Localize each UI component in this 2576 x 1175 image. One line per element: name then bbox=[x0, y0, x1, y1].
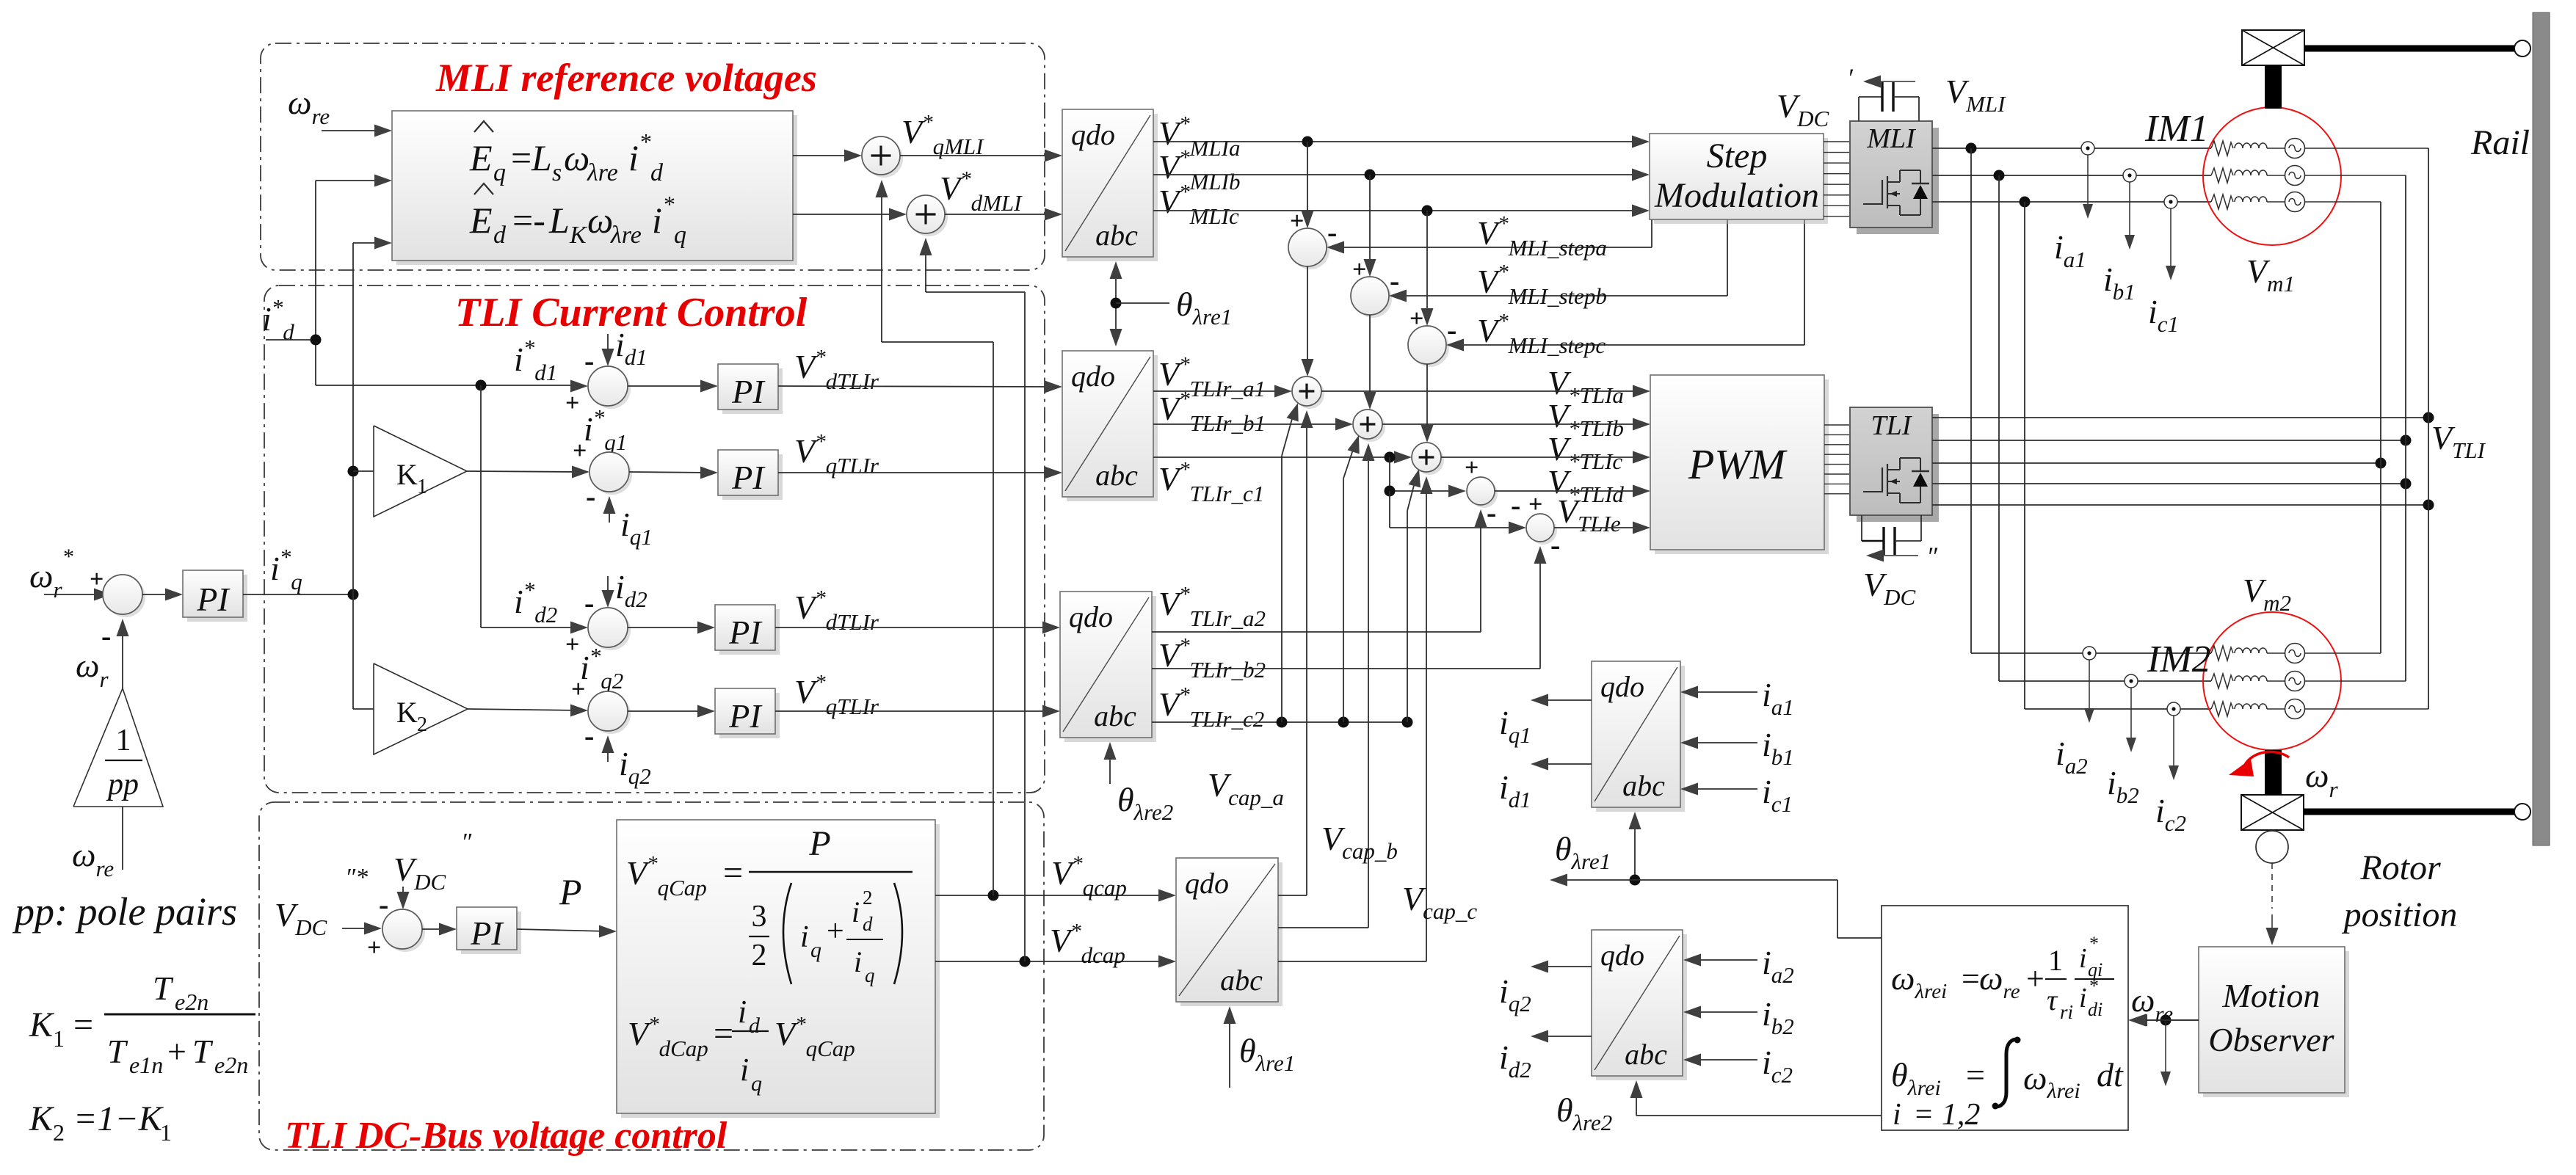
svg-text:PI: PI bbox=[728, 614, 763, 651]
svg-text:V*qcap: V*qcap bbox=[1051, 852, 1127, 901]
svg-text:qdo: qdo bbox=[1185, 867, 1229, 900]
svg-text:qdo: qdo bbox=[1600, 939, 1644, 972]
label omega_r feedback bbox=[76, 647, 109, 692]
arrow i_a1 bbox=[2083, 155, 2093, 219]
node TLI line5 to bus bbox=[2423, 500, 2434, 511]
label V_DC" feedback bbox=[393, 829, 472, 895]
svg-text:V*MLI_stepc: V*MLI_stepc bbox=[1477, 310, 1606, 358]
svg-text:position: position bbox=[2342, 895, 2458, 934]
capacitor VDC prime bbox=[1859, 82, 1919, 121]
wires gate signals MLI bbox=[1824, 142, 1849, 217]
svg-text:θλre1: θλre1 bbox=[1176, 285, 1232, 330]
equation Ed text bbox=[469, 183, 686, 249]
svg-text:L: L bbox=[548, 200, 570, 241]
wire V*TLIr_b1 bbox=[1153, 418, 1353, 431]
shaft IM2 bbox=[2265, 750, 2282, 795]
svg-text:id2: id2 bbox=[1499, 1038, 1531, 1083]
svg-text:′: ′ bbox=[1847, 63, 1854, 92]
label V_DC"* ref bbox=[275, 864, 368, 940]
svg-text:i*q2: i*q2 bbox=[580, 643, 623, 694]
label i_c2 in bbox=[1762, 1044, 1793, 1088]
wire i_d1 down arrow bbox=[584, 334, 614, 377]
svg-text:ωr: ωr bbox=[76, 647, 109, 692]
node MLIc tap bbox=[1422, 205, 1433, 217]
svg-text:P: P bbox=[559, 871, 582, 912]
label i_c1 bbox=[2148, 293, 2179, 337]
label V_TLIe bbox=[1557, 492, 1621, 536]
svg-text:Vcap_a: Vcap_a bbox=[1208, 766, 1284, 810]
label V*_dMLI bbox=[940, 167, 1023, 216]
wire stepc feedback bbox=[1446, 219, 1804, 352]
label i_b1 in bbox=[1762, 726, 1794, 770]
svg-text:di: di bbox=[2088, 999, 2102, 1020]
svg-text:ωr: ωr bbox=[2305, 757, 2338, 802]
svg-text:d: d bbox=[863, 913, 873, 935]
wire omega_re into flux model bbox=[2128, 1014, 2199, 1027]
wire V*TLIr_c1 bbox=[1153, 451, 1412, 464]
svg-text:i: i bbox=[2079, 983, 2087, 1014]
svg-text:d: d bbox=[749, 1014, 761, 1038]
svg-text:+: + bbox=[565, 631, 579, 658]
svg-text:i: i bbox=[740, 1052, 749, 1088]
label V*_dTLIr 1 bbox=[794, 346, 879, 394]
wire omega_re to eq block bbox=[322, 125, 392, 137]
svg-text:=: = bbox=[73, 1005, 93, 1044]
svg-text:-: - bbox=[584, 719, 594, 752]
svg-text:i: i bbox=[2079, 943, 2087, 974]
label V*_TLIr_a1 bbox=[1158, 353, 1266, 401]
label i_d1 bbox=[615, 326, 647, 370]
svg-text:ib2: ib2 bbox=[1762, 995, 1794, 1039]
wire V*TLIa out bbox=[1321, 385, 1650, 398]
wire P to cap block bbox=[517, 925, 617, 938]
node c2 tap a bbox=[1277, 717, 1288, 728]
summing junction stepb bbox=[1351, 256, 1399, 318]
svg-text:ic2: ic2 bbox=[1762, 1044, 1793, 1088]
summing junction dMLI bbox=[907, 195, 948, 236]
transform block qdo3 bbox=[1060, 592, 1156, 742]
wire TLI line4 bbox=[1932, 483, 2406, 484]
svg-text:*: * bbox=[2089, 933, 2099, 954]
wires gate signals TLI bbox=[1824, 425, 1849, 494]
label i*_q2 bbox=[580, 643, 623, 694]
wire theta_re1 double arrow bbox=[1110, 261, 1122, 346]
title TLI Current Control bbox=[455, 290, 808, 335]
wire TLI line2 bbox=[1932, 440, 2406, 441]
summing junction VDC bbox=[382, 909, 425, 952]
svg-text:PI: PI bbox=[731, 459, 766, 496]
node c1 branch bbox=[1385, 452, 1396, 463]
node c1 branch2 bbox=[1385, 486, 1396, 497]
wire MLI phase c bbox=[1932, 201, 2211, 203]
label V_cap_b bbox=[1321, 820, 1398, 864]
motor IM1 stator circle bbox=[2203, 107, 2341, 245]
wire i_q2 up arrow bbox=[584, 719, 614, 762]
sensor i_c2 tap bbox=[2167, 702, 2180, 716]
label V*_TLIr_b1 bbox=[1158, 388, 1266, 436]
wire c1 to TLId bbox=[1390, 457, 1466, 498]
svg-text:V*qMLI: V*qMLI bbox=[901, 111, 984, 159]
svg-text:TLI Current Control: TLI Current Control bbox=[455, 290, 808, 335]
label omega_r* bbox=[29, 545, 73, 603]
label i_a2 bbox=[2056, 735, 2088, 779]
svg-text:d: d bbox=[650, 159, 664, 186]
svg-text:abc: abc bbox=[1095, 219, 1138, 252]
wire bus phase C bbox=[2380, 202, 2381, 653]
svg-text:2: 2 bbox=[752, 939, 767, 972]
svg-text:id2: id2 bbox=[615, 568, 647, 612]
title MLI reference voltages bbox=[435, 56, 817, 100]
svg-text:-: - bbox=[1327, 216, 1337, 249]
wire i_d1 out bbox=[1531, 758, 1592, 771]
svg-text:Motion: Motion bbox=[2222, 977, 2321, 1014]
svg-text:Observer: Observer bbox=[2208, 1021, 2334, 1058]
label V*_MLIb bbox=[1158, 146, 1241, 194]
summing junction speed bbox=[103, 575, 145, 617]
svg-text:-: - bbox=[1511, 489, 1520, 522]
svg-text:i: i bbox=[652, 200, 662, 241]
svg-text:-: - bbox=[584, 344, 594, 377]
dashed group box: TLI DC-Bus voltage control bbox=[259, 802, 1044, 1150]
block PWM bbox=[1650, 375, 1829, 554]
svg-text:T: T bbox=[107, 1033, 128, 1070]
svg-text:=: = bbox=[714, 1014, 733, 1053]
summing junction TLIe bbox=[1511, 489, 1560, 561]
wire d2 to PI bbox=[628, 622, 715, 634]
wire i_d2 down arrow bbox=[584, 576, 614, 619]
svg-text:i: i bbox=[628, 137, 639, 178]
wire V*TLIr_b2 bbox=[1152, 546, 1547, 669]
svg-text:PI: PI bbox=[731, 373, 766, 410]
svg-text:PI: PI bbox=[728, 697, 763, 735]
svg-text:V*dMLI: V*dMLI bbox=[940, 167, 1023, 216]
PI block d1 bbox=[718, 364, 783, 414]
wire MLI phase b bbox=[1932, 175, 2211, 176]
wire i_q2 out bbox=[1531, 961, 1592, 973]
node MLIb tap bbox=[1365, 170, 1376, 181]
equation K1 bbox=[29, 970, 255, 1078]
svg-text:+: + bbox=[565, 390, 579, 417]
summing junction TLIc bbox=[1412, 443, 1444, 475]
PI block d2 bbox=[715, 605, 780, 655]
node c2 tap c bbox=[1402, 717, 1413, 728]
svg-text:i*d1: i*d1 bbox=[514, 335, 557, 385]
label i_q1 bbox=[620, 506, 653, 550]
svg-text:iq1: iq1 bbox=[1499, 704, 1531, 748]
svg-text:″*: ″* bbox=[345, 864, 368, 891]
svg-text:TLI DC-Bus voltage control: TLI DC-Bus voltage control bbox=[285, 1115, 728, 1157]
wire MLIc down bbox=[1421, 211, 1434, 326]
svg-text:ib2: ib2 bbox=[2107, 764, 2139, 808]
svg-text:+: + bbox=[827, 914, 844, 948]
label V*_qTLIr 1 bbox=[794, 430, 879, 479]
node TLI line3 to bus bbox=[2376, 458, 2387, 469]
block MLI inverter bbox=[1850, 121, 1939, 234]
svg-text:L: L bbox=[531, 137, 552, 178]
svg-text:V*TLIr_a2: V*TLIr_a2 bbox=[1158, 583, 1266, 631]
block Motion Observer bbox=[2199, 947, 2349, 1097]
wire V*MLIb bbox=[1153, 169, 1650, 181]
label i*_d1 bbox=[514, 335, 557, 385]
svg-text:″: ″ bbox=[461, 829, 472, 856]
wire omega_r feedback bbox=[117, 619, 129, 688]
svg-text:V*MLI_stepb: V*MLI_stepb bbox=[1477, 261, 1607, 309]
svg-text:VDC: VDC bbox=[393, 851, 446, 895]
wire V*MLIa bbox=[1153, 136, 1650, 148]
wire MLI c to IM2 bbox=[2025, 202, 2211, 709]
label i_q2 out bbox=[1499, 972, 1531, 1016]
label V_m1 bbox=[2246, 252, 2295, 297]
node K1 tap bbox=[348, 466, 359, 477]
svg-text:K: K bbox=[29, 1099, 55, 1138]
label omega_r shaft bbox=[2305, 757, 2338, 802]
svg-text:ωre: ωre bbox=[288, 84, 330, 129]
wire Ed sum to qdo1 bbox=[945, 208, 1062, 221]
label omega_re bottom-left bbox=[72, 836, 114, 881]
wire TLI line5 bbox=[1932, 504, 2428, 506]
svg-text:-: - bbox=[101, 619, 111, 652]
gearbox IM1 bbox=[2242, 30, 2304, 65]
svg-text:Step: Step bbox=[1707, 137, 1768, 175]
label V*_dcap bbox=[1050, 920, 1125, 968]
label theta_lre2 low bbox=[1556, 1091, 1612, 1135]
sensor i_a2 tap bbox=[2083, 647, 2096, 660]
summing junction stepc bbox=[1408, 305, 1456, 367]
wire speed error to PI bbox=[142, 589, 183, 601]
gain block 1/pp bbox=[73, 688, 163, 807]
svg-text:1: 1 bbox=[417, 476, 427, 498]
label Rail bbox=[2470, 123, 2530, 162]
wire i_c1 in bbox=[1680, 783, 1757, 796]
label Rotor position bbox=[2342, 848, 2458, 934]
wire stepb out bbox=[1364, 315, 1376, 410]
rail bar bbox=[2533, 12, 2550, 845]
arrow i_a2 bbox=[2084, 660, 2094, 723]
svg-text:θλre1: θλre1 bbox=[1239, 1032, 1295, 1076]
svg-text:iq1: iq1 bbox=[620, 506, 653, 550]
wire i*_d1 line bbox=[316, 380, 588, 418]
label i_a1 in bbox=[1762, 676, 1794, 720]
node c2 tap b bbox=[1338, 717, 1349, 728]
svg-text:PWM: PWM bbox=[1688, 440, 1788, 488]
label theta_lre1 top bbox=[1176, 285, 1232, 330]
svg-text:ia2: ia2 bbox=[1762, 944, 1794, 988]
arrow i_b1 bbox=[2125, 182, 2135, 250]
wire stepa feedback bbox=[1327, 219, 1652, 254]
svg-text:abc: abc bbox=[1095, 459, 1138, 492]
svg-text:″: ″ bbox=[1926, 542, 1938, 571]
svg-text:q: q bbox=[493, 159, 506, 186]
wire i_b2 in bbox=[1683, 1006, 1757, 1019]
wire VDC ref in bbox=[342, 923, 382, 962]
node theta_re1 tap bbox=[1111, 298, 1122, 309]
svg-text:+: + bbox=[167, 1033, 186, 1070]
label V*_MLIa bbox=[1158, 112, 1241, 161]
label V_TLI bbox=[2431, 419, 2486, 463]
svg-text:ω: ω bbox=[587, 200, 613, 241]
arrow VDC prime measure bbox=[1863, 76, 1915, 88]
label i*_q bbox=[270, 544, 302, 594]
svg-text:ic2: ic2 bbox=[2155, 792, 2186, 836]
motor IM2 winding c bbox=[2211, 699, 2428, 719]
label V*_TLIb bbox=[1548, 397, 1624, 441]
svg-text:T: T bbox=[153, 970, 174, 1007]
label i*_q1 bbox=[584, 404, 627, 455]
label V*_TLIr_b2 bbox=[1158, 634, 1266, 683]
wire bus phase A bbox=[2428, 148, 2429, 709]
svg-text:E: E bbox=[469, 137, 493, 178]
encoder circle bbox=[2256, 831, 2288, 863]
svg-text:pp: pole pairs: pp: pole pairs bbox=[12, 890, 237, 934]
sensor i_b1 tap bbox=[2123, 169, 2136, 182]
node MLIa tap bbox=[1302, 137, 1313, 148]
svg-text:V*TLIr_b2: V*TLIr_b2 bbox=[1158, 634, 1266, 683]
svg-text:e2n: e2n bbox=[214, 1052, 248, 1078]
label V*_TLIa bbox=[1548, 364, 1624, 408]
svg-text:1: 1 bbox=[160, 1119, 172, 1146]
node MLI a branch bbox=[1966, 143, 1977, 154]
svg-text:λre: λre bbox=[587, 159, 618, 186]
svg-text:V*qTLIr: V*qTLIr bbox=[794, 671, 879, 719]
label i_d2 bbox=[615, 568, 647, 612]
summing junction qMLI bbox=[862, 137, 903, 178]
transform block qdo i1 bbox=[1592, 661, 1685, 812]
label IM2 bbox=[2147, 639, 2211, 680]
wire theta_re1 into qdo cap bbox=[1224, 1006, 1236, 1088]
svg-text:pp: pp bbox=[106, 768, 139, 801]
wire q1 to PI bbox=[629, 467, 718, 479]
svg-text:Rotor: Rotor bbox=[2359, 848, 2441, 887]
svg-text:=: = bbox=[1966, 1056, 1985, 1094]
wire Vcap_a out bbox=[1278, 410, 1313, 895]
wire omega_re from observer bbox=[2130, 1014, 2199, 1027]
wire i_c2 in bbox=[1683, 1054, 1757, 1066]
motor IM2 winding a bbox=[2211, 644, 2381, 663]
label i_b2 in bbox=[1762, 995, 1794, 1039]
transform block qdo1 bbox=[1062, 109, 1158, 261]
wire Eq sum to qdo1 bbox=[900, 150, 1062, 162]
PI block q1 bbox=[718, 450, 783, 500]
wire V*dcap out bbox=[935, 956, 1176, 968]
svg-text:=-: =- bbox=[512, 200, 545, 241]
equation VdCap line2 bbox=[628, 994, 855, 1096]
sensor i_c1 tap bbox=[2164, 195, 2177, 208]
svg-text:3: 3 bbox=[752, 900, 767, 934]
label V*_qMLI bbox=[901, 111, 984, 159]
svg-text:q: q bbox=[865, 964, 875, 986]
svg-text:ωre: ωre bbox=[72, 836, 114, 881]
wire V*_dTLIr 2 bbox=[775, 622, 1060, 634]
svg-text:-: - bbox=[1447, 313, 1456, 346]
sensor i_b2 tap bbox=[2125, 674, 2138, 688]
svg-text:*: * bbox=[664, 191, 675, 217]
svg-text:+: + bbox=[1465, 454, 1479, 481]
wire stepa out bbox=[1302, 266, 1314, 376]
gain block K2 bbox=[374, 663, 468, 754]
wire V*qcap up to qMLI sum bbox=[876, 180, 994, 895]
label omega_re top bbox=[288, 84, 330, 129]
svg-text:V*MLI_stepa: V*MLI_stepa bbox=[1477, 212, 1607, 261]
wire i_b1 in bbox=[1680, 737, 1757, 749]
label theta_lre1 cap bbox=[1239, 1032, 1295, 1076]
svg-text:ia2: ia2 bbox=[2056, 735, 2088, 779]
svg-text:i: i bbox=[854, 945, 862, 978]
equation VqCap line1 bbox=[626, 824, 913, 986]
svg-text:*: * bbox=[640, 128, 652, 155]
label i_b1 bbox=[2103, 261, 2136, 305]
svg-text:VDC: VDC bbox=[1777, 87, 1829, 131]
svg-text:abc: abc bbox=[1622, 769, 1665, 802]
svg-text:qdo: qdo bbox=[1071, 360, 1115, 393]
svg-text:=: = bbox=[511, 137, 531, 178]
wire Eq out bbox=[793, 150, 862, 162]
label i_q1 out bbox=[1499, 704, 1531, 748]
label i_c1 in bbox=[1762, 773, 1793, 817]
svg-text:V*qTLIr: V*qTLIr bbox=[794, 430, 879, 479]
svg-text:K: K bbox=[569, 222, 588, 249]
equation block Eq Ed bbox=[392, 111, 797, 265]
label i_b2 bbox=[2107, 764, 2139, 808]
svg-text:PI: PI bbox=[470, 914, 504, 952]
wire to K2 bbox=[353, 708, 374, 710]
wire bus phase B bbox=[2405, 175, 2406, 681]
svg-text:-: - bbox=[1550, 528, 1560, 561]
summing junction q2 bbox=[588, 691, 631, 734]
svg-text:i*d2: i*d2 bbox=[514, 577, 557, 627]
label V*_dTLIr 2 bbox=[794, 586, 879, 635]
wire Ed out bbox=[793, 208, 907, 221]
motor IM2 stator circle bbox=[2203, 612, 2341, 750]
equation block VqCap bbox=[617, 820, 940, 1118]
svg-text:abc: abc bbox=[1220, 964, 1263, 997]
transform block qdo i2 bbox=[1592, 930, 1687, 1080]
axle IM1 to rail bbox=[2304, 46, 2516, 52]
wheel IM2 bbox=[2514, 804, 2530, 820]
axle IM2 to rail bbox=[2304, 809, 2516, 815]
wire VDC err to PI bbox=[422, 923, 457, 936]
wire stepb feedback bbox=[1389, 219, 1727, 302]
arrow omega_re down bbox=[2160, 1020, 2171, 1086]
svg-text:VDC: VDC bbox=[275, 896, 327, 940]
svg-text:ia1: ia1 bbox=[1762, 676, 1794, 720]
wire i_q1 out bbox=[1531, 694, 1592, 707]
svg-text:ri: ri bbox=[2060, 1001, 2073, 1023]
node MLI c branch bbox=[2020, 197, 2031, 208]
wire VDC feedback down bbox=[379, 887, 410, 921]
wire TLI line3 bbox=[1932, 462, 2381, 464]
equation Eq text bbox=[469, 121, 664, 186]
wire V TLIe out bbox=[1554, 522, 1650, 534]
svg-text:+: + bbox=[2026, 961, 2045, 997]
equation block flux model bbox=[1882, 906, 2128, 1130]
svg-text:i: i bbox=[852, 895, 860, 928]
svg-text:+: + bbox=[1528, 491, 1542, 518]
equation K2 bbox=[29, 1099, 172, 1146]
summing junction d1 bbox=[588, 366, 631, 409]
svg-text:VDC: VDC bbox=[1863, 566, 1915, 610]
svg-text:=1−K: =1−K bbox=[73, 1099, 164, 1138]
svg-text:Rail: Rail bbox=[2470, 123, 2530, 162]
node i*_d bbox=[311, 335, 322, 346]
label V_m2 bbox=[2243, 572, 2291, 616]
label V*_TLId bbox=[1548, 463, 1624, 507]
svg-text:Modulation: Modulation bbox=[1654, 176, 1819, 215]
svg-text:-: - bbox=[586, 480, 595, 513]
svg-text:id1: id1 bbox=[1499, 768, 1531, 812]
svg-text:e1n: e1n bbox=[129, 1052, 163, 1078]
svg-text:IM1: IM1 bbox=[2144, 108, 2209, 150]
node TLI line2 to bus bbox=[2401, 435, 2412, 446]
